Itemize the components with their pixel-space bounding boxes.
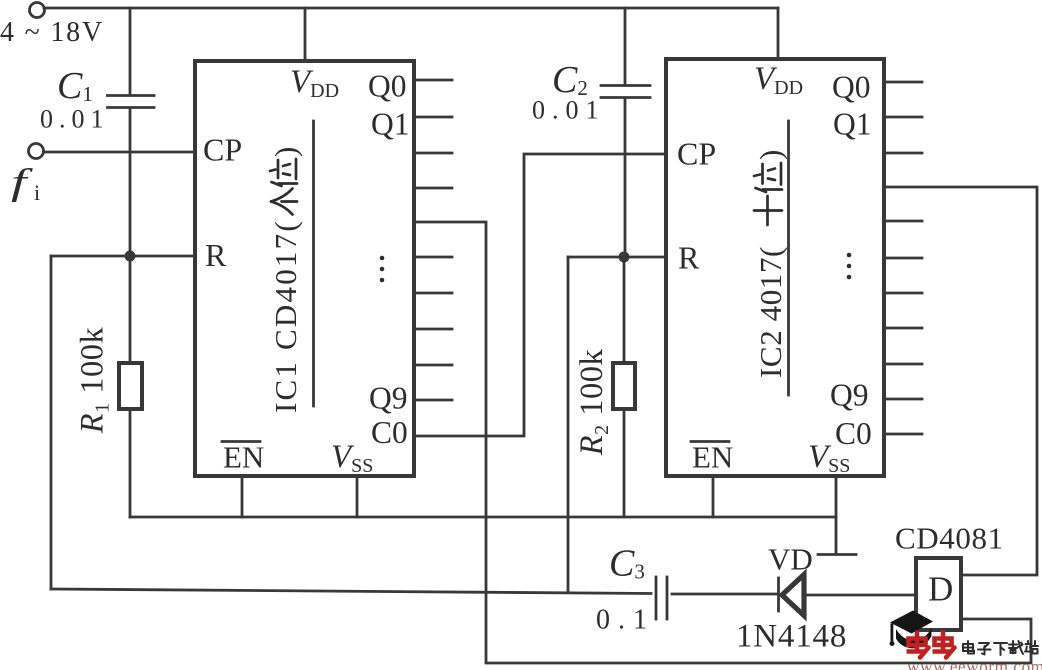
svg-text:0.01: 0.01 <box>532 96 606 125</box>
wire VDD lead IC1 <box>304 8 307 61</box>
svg-text:EN: EN <box>223 440 264 475</box>
svg-text:VDD: VDD <box>290 64 339 102</box>
AND gate D CD4081 <box>916 558 961 630</box>
wire fi to CP <box>44 151 195 154</box>
wire IC1 C0 cascade to IC2 CP <box>414 154 666 436</box>
wire left vertical to reset line <box>50 256 53 589</box>
svg-text:VDD: VDD <box>754 61 803 99</box>
IC2 pin Q1 <box>884 116 922 119</box>
wire R1 bottom lead <box>129 409 132 517</box>
svg-text:Q0: Q0 <box>368 69 407 104</box>
IC2 pin Q4 <box>884 220 922 223</box>
IC1 pin Q1 <box>414 116 452 119</box>
svg-text:CD4081: CD4081 <box>895 521 1004 556</box>
wire IC2 VSS lead <box>835 476 838 553</box>
IC2 pin Q7 <box>884 327 922 330</box>
IC1 ellipsis <box>380 256 385 283</box>
wire R1 top lead <box>129 256 132 363</box>
svg-text:www.eeworm.com: www.eeworm.com <box>907 657 1042 670</box>
svg-text:C0: C0 <box>835 416 872 451</box>
label IC2 EN <box>691 440 733 475</box>
wire R2 node to IC2 R pin <box>624 256 666 259</box>
watermark graduation cap <box>890 611 934 649</box>
wire top supply rail <box>44 7 778 10</box>
svg-text:Q9: Q9 <box>369 381 408 416</box>
wire IC2 EN lead <box>712 476 715 517</box>
IC2 pin Q0 <box>884 81 922 84</box>
IC1 pin Q8 <box>414 364 452 367</box>
IC1 pin Q7 <box>414 328 452 331</box>
wire R node left <box>51 255 130 258</box>
capacitor C1 <box>108 96 155 108</box>
svg-text:4 ~ 18V: 4 ~ 18V <box>0 17 104 48</box>
wire IC2 Q3 to gate D upper input <box>884 187 1037 575</box>
svg-text:): ) <box>753 150 788 160</box>
wire C1 top lead <box>129 8 132 93</box>
svg-text:1N4148: 1N4148 <box>736 619 847 655</box>
capacitor C3 <box>656 577 667 619</box>
wire reset line to C3 <box>51 589 651 594</box>
node R2 junction <box>619 252 630 263</box>
svg-text:C3: C3 <box>609 543 645 585</box>
svg-text:Q9: Q9 <box>830 378 869 413</box>
svg-text:CP: CP <box>677 136 716 172</box>
IC1 title underline <box>312 121 315 406</box>
svg-text:Q1: Q1 <box>371 107 410 142</box>
IC2 pin Q6 <box>884 292 922 295</box>
resistor R2 <box>613 363 635 409</box>
IC1 pin Q3 <box>414 187 452 190</box>
resistor R1 <box>119 363 142 409</box>
svg-text:VSS: VSS <box>331 439 373 477</box>
svg-text:0.1: 0.1 <box>596 605 655 636</box>
IC2 pin Q9 <box>884 398 922 401</box>
IC2 pin C0 <box>884 433 922 436</box>
svg-text:D: D <box>928 570 953 609</box>
svg-text:R: R <box>678 240 700 276</box>
svg-text:C1: C1 <box>57 65 93 107</box>
label IC1 EN <box>222 440 264 475</box>
diode VD <box>779 575 805 616</box>
wire VDD lead IC2 <box>777 8 780 59</box>
capacitor C2 <box>601 86 650 98</box>
wire R2 bottom lead <box>623 409 626 517</box>
IC1 pin Q0 <box>414 79 452 82</box>
IC1 box <box>195 61 414 476</box>
IC2 title underline <box>787 121 790 395</box>
svg-text:IC2 4017(: IC2 4017( <box>753 246 788 378</box>
svg-text:R: R <box>205 237 227 273</box>
label fi <box>11 162 33 203</box>
wire IC1 Q4 feedback to gate D lower input <box>414 222 1031 663</box>
wire C2 top lead <box>624 8 627 84</box>
IC1 pin Q6 <box>414 292 452 295</box>
wire C3 to diode <box>672 593 777 596</box>
input terminal fi <box>29 144 44 159</box>
svg-text:Q1: Q1 <box>833 107 872 142</box>
svg-text:R1 100k: R1 100k <box>75 327 114 435</box>
svg-text:): ) <box>268 147 303 157</box>
svg-text:IC1 CD4017(: IC1 CD4017( <box>268 219 303 413</box>
wire IC1 VSS lead <box>356 476 359 517</box>
svg-text:Q0: Q0 <box>832 70 871 105</box>
label IC2 title vertical <box>753 150 788 378</box>
wire C1 bottom lead <box>129 109 132 256</box>
label IC1 title vertical <box>268 147 303 413</box>
node R1 junction <box>125 251 136 262</box>
ground <box>818 553 856 556</box>
svg-text:R2 100k: R2 100k <box>574 349 613 457</box>
wire mid vertical to reset line <box>567 257 570 592</box>
IC2 pin Q5 <box>884 257 922 260</box>
svg-text:CP: CP <box>203 132 242 168</box>
svg-text:EN: EN <box>692 440 733 475</box>
IC2 box <box>666 59 884 476</box>
IC1 pin Q5 <box>414 256 452 259</box>
svg-text:C0: C0 <box>371 415 408 450</box>
IC1 pin Q2 <box>414 152 452 155</box>
wire ground rail <box>130 516 836 519</box>
IC1 pin Q9 <box>414 399 452 402</box>
wire IC1 EN lead <box>241 476 244 517</box>
wire C2 bottom lead <box>624 99 627 257</box>
wire R node to IC1 R pin <box>130 255 195 258</box>
svg-text:VD: VD <box>768 542 813 577</box>
watermark chongchong logo <box>907 631 955 658</box>
IC2 pin Q8 <box>884 363 922 366</box>
IC2 ellipsis <box>847 253 852 280</box>
IC2 pin Q2 <box>884 152 922 155</box>
svg-text:0.01: 0.01 <box>40 105 110 134</box>
wire R2 node left <box>568 256 624 259</box>
wire diode to gate D <box>805 594 916 597</box>
watermark site name <box>963 641 1038 655</box>
power terminal <box>30 3 45 18</box>
wire R2 top lead <box>623 257 626 363</box>
svg-text:f: f <box>11 162 33 203</box>
svg-text:i: i <box>34 180 40 205</box>
